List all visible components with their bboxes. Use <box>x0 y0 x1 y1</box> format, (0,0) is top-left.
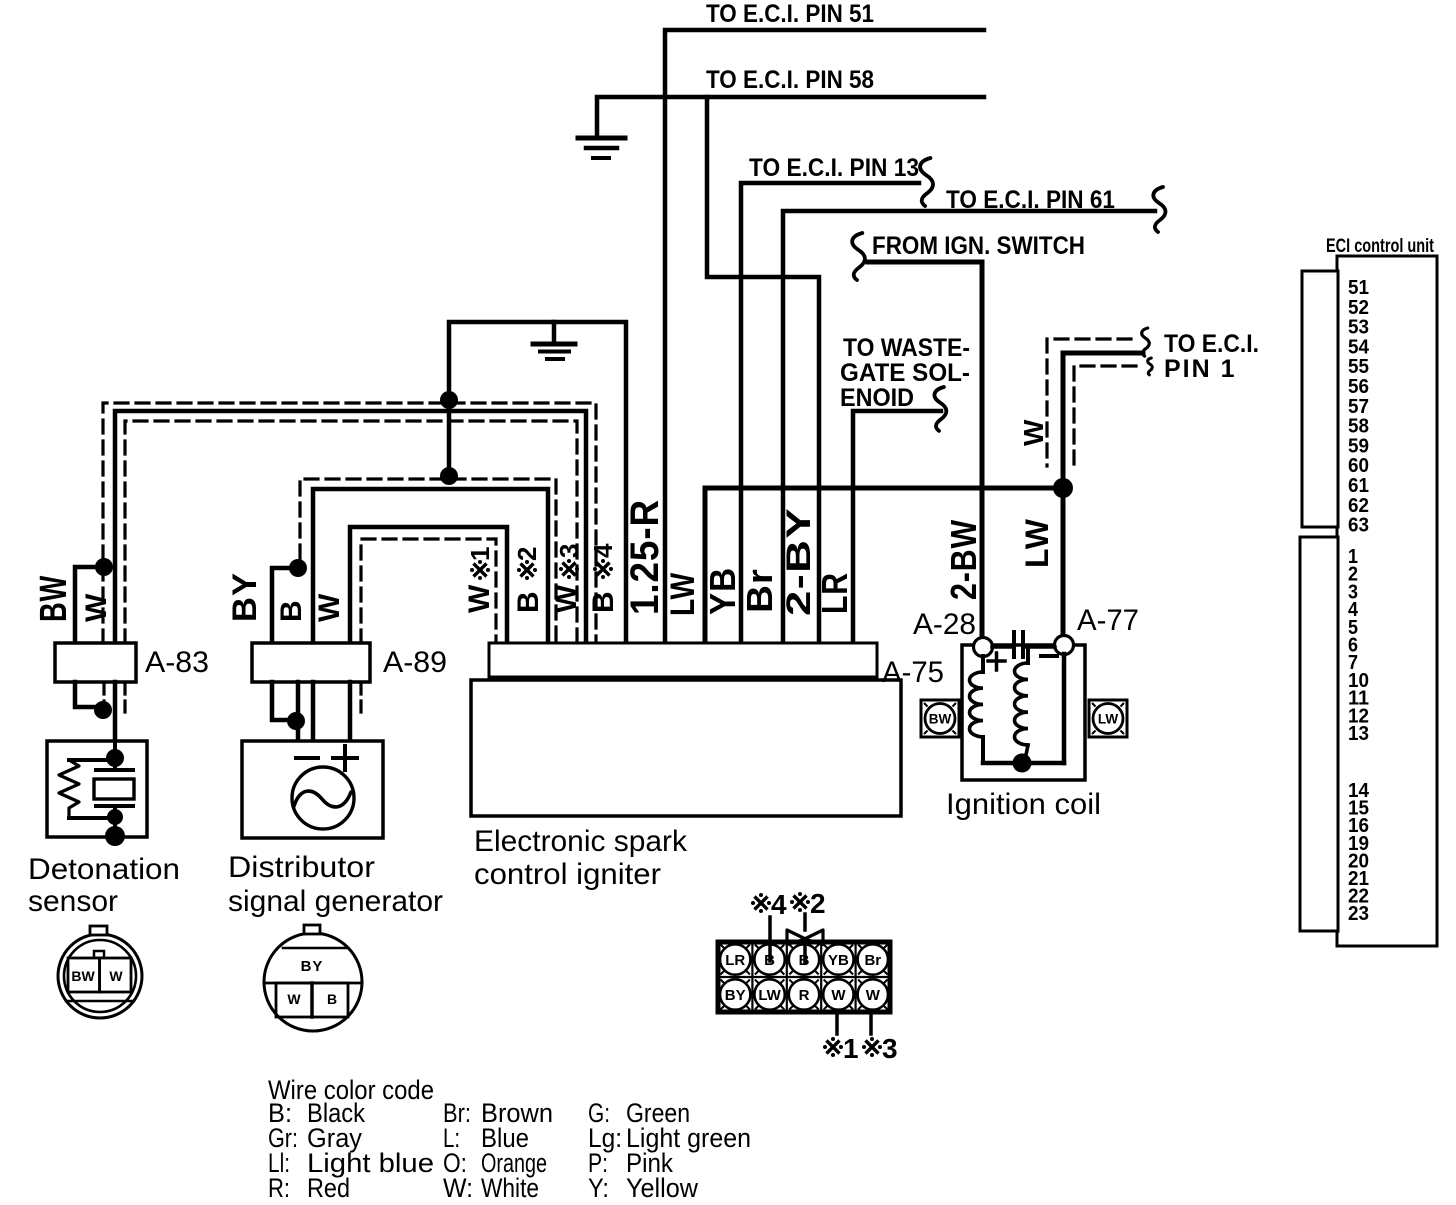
svg-text:signal generator: signal generator <box>228 885 443 918</box>
svg-text:59: 59 <box>1348 435 1369 457</box>
svg-text:51: 51 <box>1348 277 1369 299</box>
svg-text:2: 2 <box>810 888 827 919</box>
svg-text:1: 1 <box>465 546 495 561</box>
svg-text:ENOID: ENOID <box>840 384 914 412</box>
svg-text:LW: LW <box>1098 712 1119 727</box>
svg-text:57: 57 <box>1348 396 1369 418</box>
svg-text:Br: Br <box>864 952 881 969</box>
svg-text:PIN 1: PIN 1 <box>1164 355 1237 383</box>
svg-text:BY: BY <box>226 572 264 622</box>
svg-text:A-28: A-28 <box>913 608 976 641</box>
svg-text:W:: W: <box>443 1173 473 1200</box>
svg-text:W: W <box>1018 419 1049 446</box>
svg-text:61: 61 <box>1348 475 1369 497</box>
svg-text:TO E.C.I. PIN 51: TO E.C.I. PIN 51 <box>706 0 874 28</box>
svg-text:TO WASTE-: TO WASTE- <box>843 334 970 362</box>
svg-text:Distributor: Distributor <box>228 851 375 884</box>
svg-text:54: 54 <box>1348 336 1370 358</box>
svg-text:W: W <box>463 584 496 613</box>
svg-text:TO E.C.I.: TO E.C.I. <box>1164 330 1259 358</box>
svg-text:W: W <box>313 593 346 622</box>
svg-text:W: W <box>831 987 846 1004</box>
svg-text:BY: BY <box>725 987 746 1004</box>
svg-text:Yellow: Yellow <box>626 1173 698 1200</box>
svg-text:BW: BW <box>33 575 75 622</box>
svg-text:62: 62 <box>1348 495 1369 517</box>
svg-text:4: 4 <box>771 889 788 920</box>
svg-text:A-75: A-75 <box>882 656 944 689</box>
svg-text:LW: LW <box>758 987 781 1004</box>
svg-text:B: B <box>327 991 337 1007</box>
svg-text:BW: BW <box>929 712 952 727</box>
svg-text:1: 1 <box>843 1033 860 1064</box>
svg-text:R: R <box>799 987 810 1004</box>
svg-text:YB: YB <box>702 567 743 615</box>
svg-text:2: 2 <box>512 546 542 561</box>
svg-text:Br: Br <box>739 568 780 613</box>
svg-text:W: W <box>550 584 583 613</box>
svg-text:A-77: A-77 <box>1077 604 1139 637</box>
svg-text:A-89: A-89 <box>383 646 447 679</box>
svg-text:LR: LR <box>725 952 745 969</box>
svg-text:GATE SOL-: GATE SOL- <box>840 359 970 387</box>
svg-text:53: 53 <box>1348 317 1369 339</box>
svg-text:W: W <box>287 991 301 1007</box>
svg-text:63: 63 <box>1348 515 1369 537</box>
svg-text:Detonation: Detonation <box>28 853 180 886</box>
svg-text:Red: Red <box>307 1173 350 1200</box>
svg-text:A-83: A-83 <box>145 646 209 679</box>
svg-text:13: 13 <box>1348 723 1369 745</box>
svg-text:4: 4 <box>588 543 618 558</box>
svg-text:52: 52 <box>1348 297 1369 319</box>
svg-text:B: B <box>275 599 308 622</box>
svg-text:3: 3 <box>882 1033 899 1064</box>
svg-text:2-BY: 2-BY <box>780 507 818 616</box>
svg-text:LW: LW <box>664 572 702 616</box>
svg-text:23: 23 <box>1348 903 1369 925</box>
svg-text:control igniter: control igniter <box>474 858 661 891</box>
svg-text:White: White <box>481 1173 539 1200</box>
svg-text:W: W <box>109 968 123 984</box>
svg-text:LW: LW <box>1019 518 1055 568</box>
svg-text:3: 3 <box>554 543 584 558</box>
svg-text:LR: LR <box>814 572 855 614</box>
svg-text:2-BW: 2-BW <box>943 519 984 600</box>
svg-text:B: B <box>587 590 620 613</box>
svg-text:W: W <box>866 987 881 1004</box>
svg-text:ECI control unit: ECI control unit <box>1326 236 1435 257</box>
svg-text:YB: YB <box>828 952 849 969</box>
svg-text:FROM IGN. SWITCH: FROM IGN. SWITCH <box>872 232 1085 260</box>
svg-text:56: 56 <box>1348 376 1369 398</box>
svg-text:BY: BY <box>301 958 324 975</box>
svg-text:BW: BW <box>71 968 95 984</box>
svg-text:sensor: sensor <box>28 885 118 918</box>
svg-text:60: 60 <box>1348 455 1369 477</box>
svg-text:58: 58 <box>1348 416 1369 438</box>
svg-text:TO E.C.I. PIN 13: TO E.C.I. PIN 13 <box>749 154 919 182</box>
svg-text:W: W <box>80 593 113 622</box>
svg-text:Y:: Y: <box>588 1173 609 1200</box>
svg-text:1.25-R: 1.25-R <box>623 499 667 615</box>
svg-text:R:: R: <box>268 1173 290 1200</box>
svg-text:B: B <box>512 590 545 613</box>
svg-text:Ignition coil: Ignition coil <box>946 788 1101 821</box>
svg-text:TO E.C.I. PIN 58: TO E.C.I. PIN 58 <box>706 66 874 94</box>
svg-text:55: 55 <box>1348 356 1369 378</box>
svg-text:Electronic spark: Electronic spark <box>474 825 688 858</box>
